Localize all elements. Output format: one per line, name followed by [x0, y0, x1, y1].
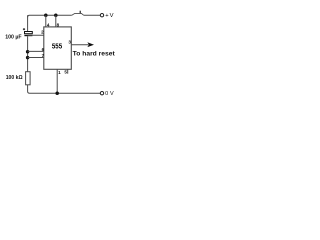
svg-text:6: 6: [42, 47, 45, 52]
svg-text:V: V: [110, 13, 114, 19]
wire: pin 5 stub (unconnected): [67, 69, 69, 73]
svg-text:555: 555: [52, 41, 62, 50]
svg-text:7: 7: [42, 53, 45, 58]
terminal 0V (open circle): [100, 92, 103, 95]
svg-text:V: V: [110, 91, 114, 97]
resistor R1 (box style): [26, 72, 31, 85]
arrow head: to hard reset: [87, 42, 94, 47]
node: junction dot pin4 on top rail: [44, 13, 48, 17]
capacitor C1 top plate (hollow): [25, 32, 33, 34]
wire: lead to pin 7: [28, 57, 44, 59]
svg-text:To hard reset: To hard reset: [73, 50, 116, 57]
node: junction dot on bottom rail: [55, 91, 59, 95]
push switch: actuator stem: [79, 11, 81, 14]
node: junction dot pin8 on top rail: [54, 13, 58, 17]
svg-text:0: 0: [105, 91, 108, 97]
node: junction dot at pin 7 tee: [26, 56, 29, 59]
node: junction dot at pin 6 tee: [26, 50, 29, 53]
wire: left rail bottom + bottom rail to 0V terminal: [28, 85, 100, 93]
wire: left rail middle (capacitor to resistor): [27, 36, 29, 71]
wire: top rail from push switch to +V terminal: [84, 14, 100, 16]
IC U1: 555 timer box: [44, 27, 72, 69]
wire: output lead from pin 3: [71, 44, 88, 46]
svg-text:5: 5: [64, 69, 67, 74]
wire: top rail from left corner to push switch: [28, 15, 72, 17]
wire: stub from top rail to pin 4: [45, 15, 47, 27]
svg-text:100 µF: 100 µF: [5, 35, 22, 41]
wire: stub from top rail to pin 8: [55, 15, 57, 27]
terminal +V (open circle): [100, 14, 103, 17]
capacitor C1 polarity plus sign: [23, 28, 25, 30]
wire: pin 1 stub down to bottom rail: [56, 69, 58, 93]
svg-text:2: 2: [41, 30, 44, 35]
svg-text:1: 1: [58, 70, 61, 75]
wire: left rail top (from top rail down to capacitor): [27, 15, 29, 31]
push switch: raised contact bar in top rail: [72, 13, 84, 15]
svg-text:3: 3: [68, 39, 71, 44]
capacitor C1 bottom plate (solid): [24, 35, 32, 36]
wire: lead to pin 2: [28, 34, 44, 36]
svg-text:100 kΩ: 100 kΩ: [6, 75, 23, 81]
wire: lead to pin 6: [28, 50, 44, 52]
